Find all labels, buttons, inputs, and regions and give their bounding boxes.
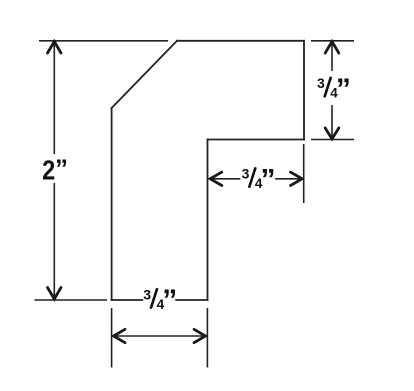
svg-text:2: 2: [42, 156, 55, 186]
label 2": [42, 154, 68, 186]
svg-text:”: ”: [336, 73, 351, 106]
label 3/4" middle: [242, 163, 276, 196]
svg-text:”: ”: [261, 163, 276, 196]
extension line bottom right: [311, 139, 354, 141]
dimension line right segment: [275, 178, 301, 180]
arrowhead up (2"): [48, 42, 62, 54]
arrowhead up (right 3/4"): [325, 42, 339, 54]
moulding profile outline: [112, 41, 304, 300]
svg-text:”: ”: [55, 154, 68, 184]
arrowhead down (right 3/4"): [325, 128, 339, 139]
3/4-inch dimension (bottom): [112, 308, 208, 368]
svg-text:3: 3: [242, 166, 250, 182]
label 3/4" bottom: [143, 284, 177, 317]
bottom edge left segment: [112, 299, 143, 301]
label 3/4" right: [317, 73, 351, 106]
extension line below notch corner: [303, 144, 305, 203]
arrowhead left (bottom 3/4"): [114, 329, 126, 342]
dimension line upper segment: [53, 43, 55, 155]
extension line bottom left: [111, 308, 113, 368]
dimension line left segment: [211, 178, 240, 180]
3/4-inch dimension (middle horizontal): [211, 144, 304, 203]
right edge: [303, 41, 305, 140]
arrowhead right (bottom 3/4"): [194, 329, 206, 342]
3/4-inch dimension (right): [311, 41, 354, 140]
extension line bottom right: [206, 308, 208, 368]
arrowhead left (middle 3/4"): [210, 172, 222, 185]
dimension line upper segment: [331, 43, 333, 72]
dimension line: [115, 335, 205, 337]
extension line bottom: [35, 299, 108, 301]
arrowhead right (middle 3/4"): [291, 172, 303, 185]
chamfer edge: [112, 41, 177, 108]
notch vertical edge: [207, 140, 209, 301]
extension line top right: [311, 40, 354, 42]
notch horizontal edge: [208, 139, 305, 141]
dimension line lower segment: [53, 183, 55, 298]
2-inch dimension (left): [35, 41, 169, 300]
svg-text:3: 3: [143, 287, 151, 303]
arrowhead down (2"): [48, 288, 62, 300]
bottom edge right segment: [176, 299, 207, 301]
extension line top: [39, 40, 168, 42]
top edge: [177, 40, 304, 42]
dimension line lower segment: [331, 105, 333, 138]
left edge: [111, 108, 113, 300]
svg-text:”: ”: [162, 284, 177, 317]
svg-text:3: 3: [317, 75, 325, 91]
